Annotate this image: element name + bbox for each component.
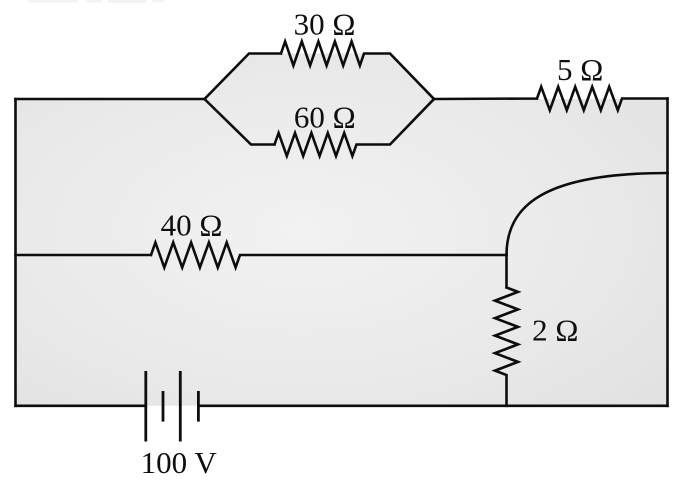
- svg-text:5 Ω: 5 Ω: [557, 52, 603, 87]
- svg-text:30 Ω: 30 Ω: [294, 7, 356, 42]
- svg-text:100 V: 100 V: [141, 445, 218, 480]
- svg-text:2 Ω: 2 Ω: [532, 313, 578, 348]
- svg-text:40 Ω: 40 Ω: [161, 208, 223, 243]
- svg-text:60 Ω: 60 Ω: [294, 99, 356, 134]
